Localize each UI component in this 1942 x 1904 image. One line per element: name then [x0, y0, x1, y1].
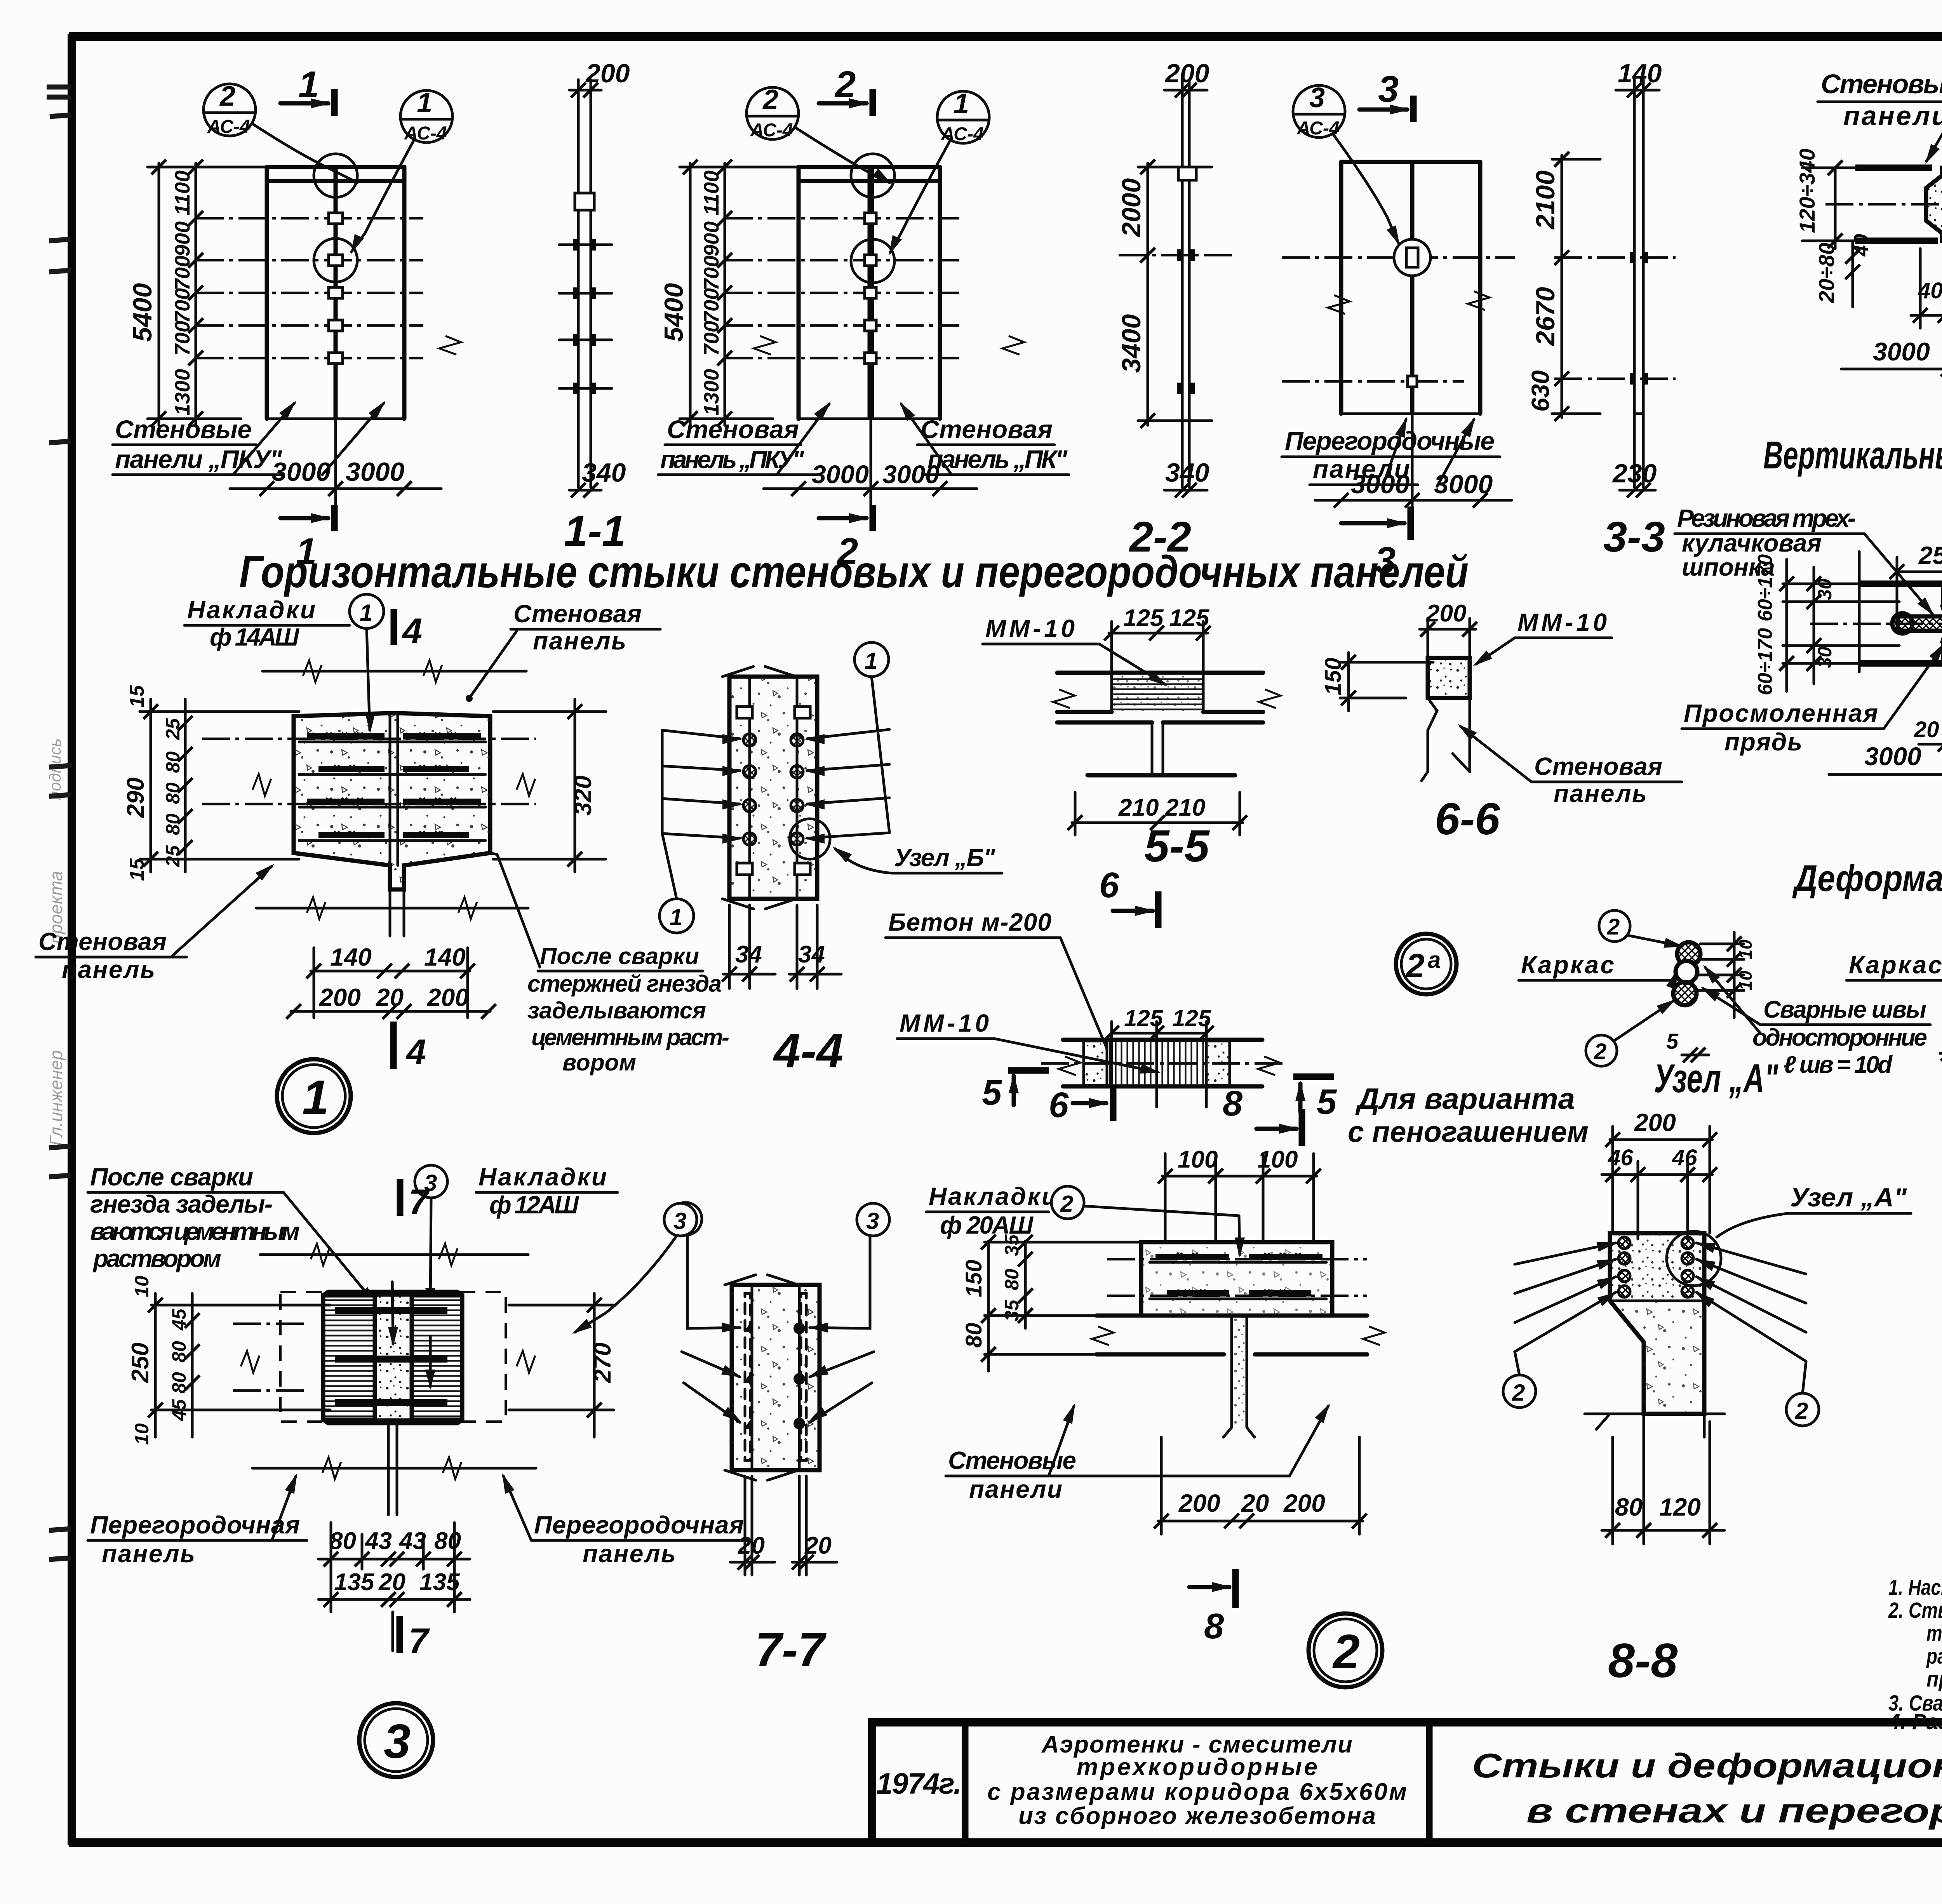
svg-text:панели „ПКУ": панели „ПКУ" — [115, 445, 282, 473]
svg-text:Для варианта: Для варианта — [1355, 1083, 1575, 1116]
svg-text:цементным раст-: цементным раст- — [531, 1024, 729, 1050]
svg-text:20÷80: 20÷80 — [1814, 243, 1839, 303]
svg-text:10: 10 — [1735, 939, 1756, 959]
svg-text:Перегородочная: Перегородочная — [534, 1511, 744, 1539]
svg-text:700: 700 — [700, 288, 723, 323]
circle 2/AC-4 — [204, 84, 256, 136]
joint rows with weld plates — [196, 213, 423, 364]
svg-text:2: 2 — [1060, 1191, 1073, 1217]
svg-text:6-6: 6-6 — [1435, 794, 1500, 844]
svg-text:30: 30 — [1814, 578, 1836, 600]
svg-text:120÷340: 120÷340 — [1795, 148, 1819, 233]
big circled 1 — [277, 1059, 351, 1133]
svg-text:Бетон м-200: Бетон м-200 — [888, 908, 1051, 936]
section mark 1 bottom — [331, 505, 338, 531]
svg-text:200: 200 — [319, 983, 361, 1011]
svg-text:80: 80 — [168, 1372, 190, 1394]
svg-text:1: 1 — [865, 648, 877, 674]
svg-text:трехкоридорные: трехкоридорные — [1077, 1754, 1317, 1780]
svg-text:15: 15 — [126, 858, 148, 881]
svg-text:5: 5 — [1317, 1082, 1337, 1122]
svg-text:3000: 3000 — [346, 457, 404, 487]
svg-text:340: 340 — [582, 458, 626, 487]
svg-text:вором: вором — [562, 1049, 636, 1076]
svg-text:из сборного железобетона: из сборного железобетона — [1018, 1803, 1376, 1829]
svg-text:гнезда заделы-: гнезда заделы- — [90, 1190, 273, 1218]
svg-text:а: а — [1428, 947, 1441, 973]
svg-text:1: 1 — [298, 64, 319, 105]
svg-text:2: 2 — [1332, 1625, 1360, 1679]
lower wall with T stem — [1057, 721, 1152, 725]
svg-text:типа. Замоноличивание стыков: типа. Замоноличивание стыков осуществляе… — [1926, 1621, 1942, 1646]
svg-text:80: 80 — [329, 1528, 356, 1554]
svg-text:150: 150 — [961, 1260, 987, 1297]
section 4 bottom — [390, 1022, 397, 1069]
svg-text:120: 120 — [1659, 1493, 1701, 1521]
svg-text:После сварки: После сварки — [540, 943, 699, 969]
svg-text:2: 2 — [1795, 1398, 1808, 1424]
svg-text:5: 5 — [1666, 1029, 1679, 1053]
svg-text:Просмоленная: Просмоленная — [1684, 699, 1878, 727]
rebar dots — [743, 1321, 805, 1429]
svg-text:2: 2 — [1405, 947, 1425, 985]
svg-text:3000: 3000 — [1351, 470, 1410, 499]
svg-text:Накладки: Накладки — [479, 1163, 607, 1191]
column — [1610, 1233, 1704, 1414]
svg-text:290: 290 — [122, 778, 149, 818]
svg-text:20: 20 — [376, 983, 404, 1011]
svg-text:80: 80 — [961, 1323, 987, 1348]
svg-text:2. Стыки между перегородочными: 2. Стыки между перегородочными и стеновы… — [1888, 1598, 1942, 1623]
svg-text:7-7: 7-7 — [755, 1623, 827, 1677]
svg-text:1300: 1300 — [171, 369, 194, 416]
dim line stack 1300..1100 — [195, 163, 197, 425]
svg-text:2100: 2100 — [1531, 171, 1560, 230]
svg-text:200: 200 — [1283, 1489, 1325, 1517]
svg-text:3000: 3000 — [272, 457, 331, 487]
svg-text:35: 35 — [1001, 1299, 1023, 1321]
svg-text:2: 2 — [834, 64, 856, 105]
svg-text:2: 2 — [1607, 914, 1620, 940]
svg-text:1: 1 — [360, 600, 372, 626]
margin inventory text — [46, 738, 66, 1146]
section 8 — [1189, 1585, 1229, 1589]
svg-text:Стеновая: Стеновая — [1534, 752, 1662, 780]
svg-text:Стеновая: Стеновая — [921, 415, 1053, 444]
svg-text:35: 35 — [1001, 1234, 1023, 1256]
svg-text:2: 2 — [219, 81, 235, 112]
svg-text:700: 700 — [171, 321, 194, 356]
svg-text:100: 100 — [1178, 1146, 1218, 1173]
svg-text:25: 25 — [162, 718, 184, 740]
svg-text:1: 1 — [670, 904, 682, 930]
svg-text:Сварные швы: Сварные швы — [1763, 996, 1926, 1023]
leader arrows — [682, 1236, 874, 1422]
svg-text:панели: панели — [969, 1475, 1062, 1503]
taper top/bottom — [323, 1292, 462, 1295]
svg-text:8: 8 — [1223, 1084, 1243, 1123]
svg-text:1-1: 1-1 — [564, 507, 626, 555]
svg-text:80: 80 — [1001, 1269, 1023, 1290]
svg-text:панель: панель — [62, 955, 155, 983]
svg-text:Стеновая: Стеновая — [667, 415, 799, 444]
svg-text:200: 200 — [1426, 600, 1466, 627]
svg-text:200: 200 — [427, 983, 469, 1011]
svg-text:1974г.: 1974г. — [876, 1767, 962, 1800]
svg-text:140: 140 — [330, 943, 372, 971]
svg-text:80: 80 — [434, 1528, 461, 1554]
svg-text:1100: 1100 — [171, 171, 194, 216]
svg-text:60÷170: 60÷170 — [1754, 554, 1777, 621]
rubber waterstop — [1898, 616, 1942, 631]
svg-text:Узел „А": Узел „А" — [1654, 1056, 1778, 1101]
svg-text:Узел „А": Узел „А" — [1790, 1183, 1907, 1212]
svg-text:приведенными в выпуске 1 серии: приведенными в выпуске 1 серии 3.900-2. — [1926, 1667, 1942, 1692]
big circled 2 — [1309, 1613, 1382, 1687]
svg-text:2-2: 2-2 — [1129, 513, 1191, 561]
svg-text:135: 135 — [334, 1569, 375, 1596]
leader arrows to rebars — [662, 729, 889, 838]
bottom tail continues — [389, 889, 392, 936]
svg-text:3000: 3000 — [882, 460, 940, 489]
walls plan — [1057, 671, 1263, 675]
svg-text:15: 15 — [126, 685, 148, 708]
svg-text:раствором механизированным спо: раствором механизированным способом в со… — [1926, 1644, 1942, 1669]
svg-text:4-4: 4-4 — [773, 1024, 843, 1078]
svg-text:Стеновая: Стеновая — [513, 600, 642, 628]
wall strip — [1859, 581, 1942, 587]
svg-text:46: 46 — [1672, 1145, 1697, 1170]
rebar bars — [335, 1307, 447, 1406]
svg-text:1: 1 — [296, 531, 317, 572]
fold marks left margin — [47, 87, 71, 1559]
dim line 5400 — [158, 163, 160, 425]
svg-text:Вертикальные стыки стеновых и: Вертикальные стыки стеновых и перегородо… — [1763, 433, 1942, 477]
svg-text:Гл.инженер: Гл.инженер — [46, 1050, 66, 1146]
big circled 3 — [359, 1703, 433, 1777]
svg-text:30: 30 — [1814, 646, 1836, 668]
svg-text:20: 20 — [1241, 1489, 1269, 1517]
svg-text:АС-4: АС-4 — [941, 124, 984, 144]
weld plate rows — [307, 733, 481, 838]
bottom — [1596, 1414, 1610, 1429]
svg-text:панель „ПКУ": панель „ПКУ" — [660, 446, 804, 473]
svg-text:43: 43 — [398, 1528, 426, 1554]
svg-text:3000: 3000 — [1873, 337, 1930, 366]
panel outline — [265, 167, 269, 419]
dash-dot rows through block — [202, 738, 536, 740]
svg-text:250: 250 — [1918, 541, 1942, 569]
svg-text:8-8: 8-8 — [1608, 1634, 1677, 1688]
svg-text:5: 5 — [982, 1073, 1002, 1112]
svg-text:45: 45 — [168, 1308, 190, 1331]
svg-text:3000: 3000 — [812, 460, 869, 489]
svg-text:210: 210 — [1165, 794, 1205, 821]
svg-text:34: 34 — [798, 941, 825, 968]
svg-text:Накладки: Накладки — [187, 596, 315, 624]
svg-text:5400: 5400 — [659, 283, 689, 342]
svg-text:10: 10 — [131, 1276, 153, 1297]
svg-text:5400: 5400 — [128, 283, 157, 342]
svg-text:Узел „Б": Узел „Б" — [894, 844, 995, 872]
svg-text:в стенах и перегородках.: в стенах и перегородках. — [1526, 1791, 1942, 1830]
svg-text:125: 125 — [1123, 605, 1164, 632]
svg-text:панель: панель — [583, 1540, 676, 1568]
svg-text:панели: панели — [1843, 101, 1942, 131]
svg-text:Накладки: Накладки — [929, 1182, 1057, 1210]
svg-text:340: 340 — [1165, 458, 1209, 487]
svg-text:3000: 3000 — [1864, 742, 1921, 771]
svg-text:односторонние: односторонние — [1752, 1024, 1927, 1051]
svg-text:6: 6 — [1049, 1085, 1069, 1125]
svg-text:ф 12АШ: ф 12АШ — [489, 1191, 579, 1219]
upper extension line with breaks — [263, 670, 526, 673]
lower extension line — [256, 907, 528, 910]
svg-text:3: 3 — [673, 1208, 686, 1234]
svg-text:2: 2 — [1594, 1039, 1606, 1064]
svg-text:подпись: подпись — [46, 738, 64, 800]
svg-text:80: 80 — [1615, 1493, 1643, 1521]
svg-text:2: 2 — [837, 531, 858, 572]
svg-text:10: 10 — [1735, 970, 1756, 990]
svg-text:заделываются: заделываются — [527, 997, 706, 1023]
svg-text:1300: 1300 — [700, 369, 723, 416]
svg-text:Стеновые: Стеновые — [115, 415, 252, 444]
svg-text:20: 20 — [378, 1569, 405, 1596]
svg-text:Стеновые: Стеновые — [1821, 69, 1942, 99]
top band — [1141, 1242, 1332, 1316]
svg-text:3: 3 — [1378, 68, 1399, 110]
right dim 320 — [574, 699, 576, 872]
svg-text:2: 2 — [762, 84, 778, 115]
dims right 10 10 — [1733, 932, 1736, 1018]
svg-text:80: 80 — [168, 1341, 190, 1363]
circle 1/AC-4 — [400, 91, 452, 143]
left dims — [987, 1241, 990, 1371]
svg-text:ф 14АШ: ф 14АШ — [210, 623, 299, 651]
svg-text:7: 7 — [409, 1182, 430, 1222]
svg-text:20: 20 — [804, 1532, 832, 1559]
svg-text:Стеновая: Стеновая — [38, 928, 167, 955]
svg-text:900: 900 — [171, 221, 194, 256]
svg-text:Стыки и деформационные швы: Стыки и деформационные швы — [1472, 1746, 1942, 1785]
svg-text:200: 200 — [1634, 1109, 1676, 1136]
svg-text:панель: панель — [1554, 780, 1647, 808]
svg-text:панель: панель — [533, 627, 626, 655]
svg-text:5-5: 5-5 — [1144, 821, 1210, 871]
svg-text:2000: 2000 — [1117, 178, 1146, 238]
svg-text:После сварки: После сварки — [90, 1163, 253, 1191]
svg-text:АС-4: АС-4 — [750, 120, 793, 141]
leaders left — [1515, 1243, 1806, 1361]
svg-text:Резиновая трех-: Резиновая трех- — [1677, 504, 1856, 532]
svg-text:25: 25 — [162, 845, 184, 867]
svg-text:Деформационные швы в стенах и: Деформационные швы в стенах и перегородк… — [1792, 858, 1942, 899]
svg-text:210: 210 — [1118, 794, 1159, 821]
svg-text:2670: 2670 — [1531, 287, 1560, 346]
section 7 bottom — [392, 1612, 394, 1651]
svg-text:80: 80 — [162, 782, 184, 804]
dash-dot rows — [233, 1323, 307, 1325]
svg-text:80: 80 — [162, 813, 184, 835]
svg-text:4: 4 — [405, 1032, 426, 1072]
svg-text:1: 1 — [417, 87, 432, 118]
svg-text:43: 43 — [364, 1528, 392, 1554]
svg-text:200: 200 — [1178, 1489, 1220, 1517]
svg-text:140: 140 — [424, 943, 466, 971]
svg-text:3: 3 — [1309, 82, 1325, 113]
extension lines top — [260, 1253, 528, 1256]
svg-text:8: 8 — [1204, 1606, 1224, 1646]
svg-text:320: 320 — [570, 776, 597, 816]
svg-text:3: 3 — [384, 1715, 411, 1768]
svg-text:700: 700 — [700, 256, 723, 291]
svg-text:Каркас: Каркас — [1849, 951, 1942, 979]
left dims — [1785, 559, 1788, 691]
left dim lines — [150, 699, 152, 872]
svg-text:270: 270 — [589, 1343, 616, 1383]
svg-text:с размерами коридора 6х5х60м: с размерами коридора 6х5х60м — [987, 1779, 1407, 1805]
left dims — [154, 1293, 157, 1437]
svg-text:1: 1 — [954, 88, 969, 119]
svg-text:7: 7 — [409, 1621, 430, 1661]
svg-text:700: 700 — [171, 288, 194, 323]
svg-text:80: 80 — [162, 751, 184, 773]
svg-text:4: 4 — [402, 611, 422, 651]
octagon key — [1926, 168, 1942, 241]
svg-text:3-3: 3-3 — [1603, 513, 1665, 561]
svg-text:1. Настоящий чертеж рассматрив: 1. Настоящий чертеж рассматривать совмес… — [1888, 1575, 1942, 1600]
svg-text:стержней гнезда: стержней гнезда — [527, 971, 722, 997]
svg-text:панель: панель — [102, 1540, 195, 1568]
hatched blocks — [323, 1295, 375, 1420]
svg-text:АС-4: АС-4 — [404, 123, 447, 144]
dashed outline — [280, 1292, 506, 1422]
svg-text:1: 1 — [302, 1071, 329, 1124]
svg-text:60÷170: 60÷170 — [1754, 628, 1777, 695]
svg-text:3400: 3400 — [1117, 314, 1146, 373]
svg-text:2: 2 — [1512, 1380, 1525, 1406]
wall strip — [1855, 165, 1932, 171]
svg-text:700: 700 — [700, 321, 723, 356]
svg-text:900: 900 — [700, 221, 723, 256]
svg-text:6: 6 — [1099, 865, 1119, 905]
svg-text:3: 3 — [1375, 540, 1396, 581]
svg-text:630: 630 — [1526, 370, 1554, 412]
svg-text:Перегородочная: Перегородочная — [90, 1511, 300, 1539]
svg-text:10: 10 — [131, 1423, 153, 1445]
svg-text:20: 20 — [1914, 717, 1939, 742]
svg-text:700: 700 — [171, 256, 194, 291]
svg-text:4. Размер в скобках относит: 4. Размер в скобках относится к панелям … — [1888, 1709, 1942, 1734]
svg-text:ℓ шв = 10d: ℓ шв = 10d — [1784, 1051, 1893, 1078]
svg-text:3: 3 — [866, 1208, 879, 1234]
main joint block — [294, 713, 490, 889]
svg-text:прядь: прядь — [1724, 728, 1802, 756]
right dim 270 — [593, 1293, 596, 1437]
svg-text:150: 150 — [1321, 658, 1346, 695]
svg-text:1100: 1100 — [700, 171, 723, 216]
mortar strip center — [375, 1295, 412, 1420]
bottom extension — [252, 1467, 536, 1470]
circled 2a — [1396, 934, 1456, 994]
left dims — [1834, 168, 1837, 249]
T stem — [1230, 1316, 1233, 1427]
svg-text:раствором: раствором — [92, 1244, 221, 1272]
svg-text:с пеногашением: с пеногашением — [1348, 1116, 1589, 1149]
walls below — [1096, 1314, 1141, 1318]
svg-text:40: 40 — [1850, 234, 1873, 257]
svg-text:Каркас: Каркас — [1521, 951, 1614, 979]
svg-text:250: 250 — [127, 1343, 154, 1383]
svg-text:АС-4: АС-4 — [207, 117, 250, 137]
svg-text:ваются цементным: ваются цементным — [90, 1217, 300, 1245]
joint lines below — [387, 1423, 390, 1515]
